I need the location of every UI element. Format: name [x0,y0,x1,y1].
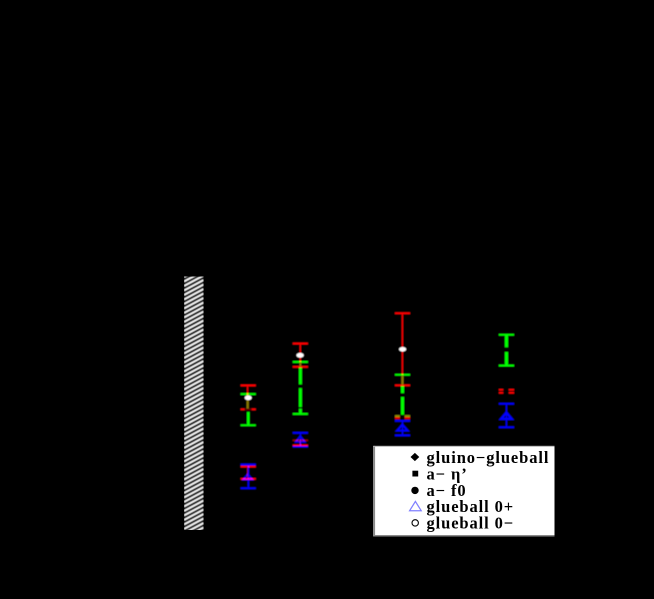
white circle marker G2 [296,353,303,358]
black marker gap G1 [245,409,252,412]
black marker gaps G3 [399,393,407,397]
plot: group 3 [382,305,424,445]
hatched exclusion band [184,267,204,543]
olive overlap segment G1 [247,400,249,408]
olive overlap segment G3 [401,376,403,385]
legend marker square [412,471,418,477]
error bar red A G2 [293,343,308,368]
triangle marker G1 [243,474,252,480]
triangle marker G3 [397,425,408,431]
triangle marker G2 [296,436,305,442]
error bar green G4 [499,334,514,367]
plot: group 2 [280,335,322,455]
error bar blue G1 [241,464,256,490]
error bar green G1 [241,393,256,426]
error bar red A G1 [241,385,256,411]
error bar red B G4 [499,389,514,394]
error bar green G3 [395,374,410,415]
black marker gaps G4 [502,347,510,352]
error bar blue G2 [293,432,308,448]
error bar red B G3 [395,415,410,419]
legend text [427,448,550,533]
error bar red B G1 [241,466,256,480]
legend marker diamond [411,453,420,461]
legend marker open circle [412,520,418,526]
error bar blue G4 [499,403,514,428]
error bar green G2 [293,361,308,415]
black marker gaps G2 [296,384,304,388]
legend marker open triangle [410,501,422,510]
white circle marker G3 [399,347,406,352]
legend marker circle [411,487,418,494]
triangle marker G4 [501,413,511,419]
error bar red A G3 [395,312,410,386]
olive overlap segment G2 [299,362,301,366]
plot: group 4 [488,328,526,438]
white circle marker G1 [245,395,252,400]
plot: group 1 [230,370,270,500]
error bar red B G2 [293,440,308,447]
error bar blue G3 [395,420,410,436]
legend box [373,446,554,536]
svg-text:glueball 0−: glueball 0− [427,514,515,533]
